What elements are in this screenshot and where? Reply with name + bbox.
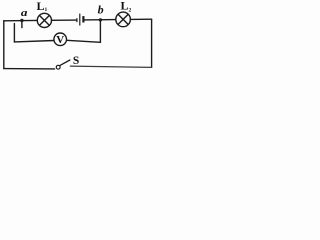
lamp L1 [37,13,51,27]
wire bottom-right [70,66,151,67]
lamp L2 [116,12,131,27]
wire lamp1 to battery [51,19,77,21]
wire voltmeter-branch left horizontal [14,41,54,42]
switch S arm [60,60,70,65]
switch S pivot [56,65,60,69]
voltmeter V [54,33,67,46]
wire left vertical [3,21,5,69]
svg-text:S: S [73,55,79,67]
wire stub below node a [21,21,23,28]
wire voltmeter-branch left vertical [13,24,15,42]
battery [77,14,84,26]
wire battery to lamp2 [84,19,116,21]
svg-text:a: a [21,6,28,18]
wire bottom-left [4,68,55,70]
svg-text:b: b [98,2,104,16]
wire vertical below node b [99,20,101,42]
wire top-left [4,19,38,21]
node b [99,18,102,21]
wire voltmeter-branch right horizontal [67,40,101,42]
node a [20,19,23,22]
wire lamp2 to right corner [130,18,151,20]
wire right vertical [151,19,153,67]
svg-text:V: V [56,34,64,46]
